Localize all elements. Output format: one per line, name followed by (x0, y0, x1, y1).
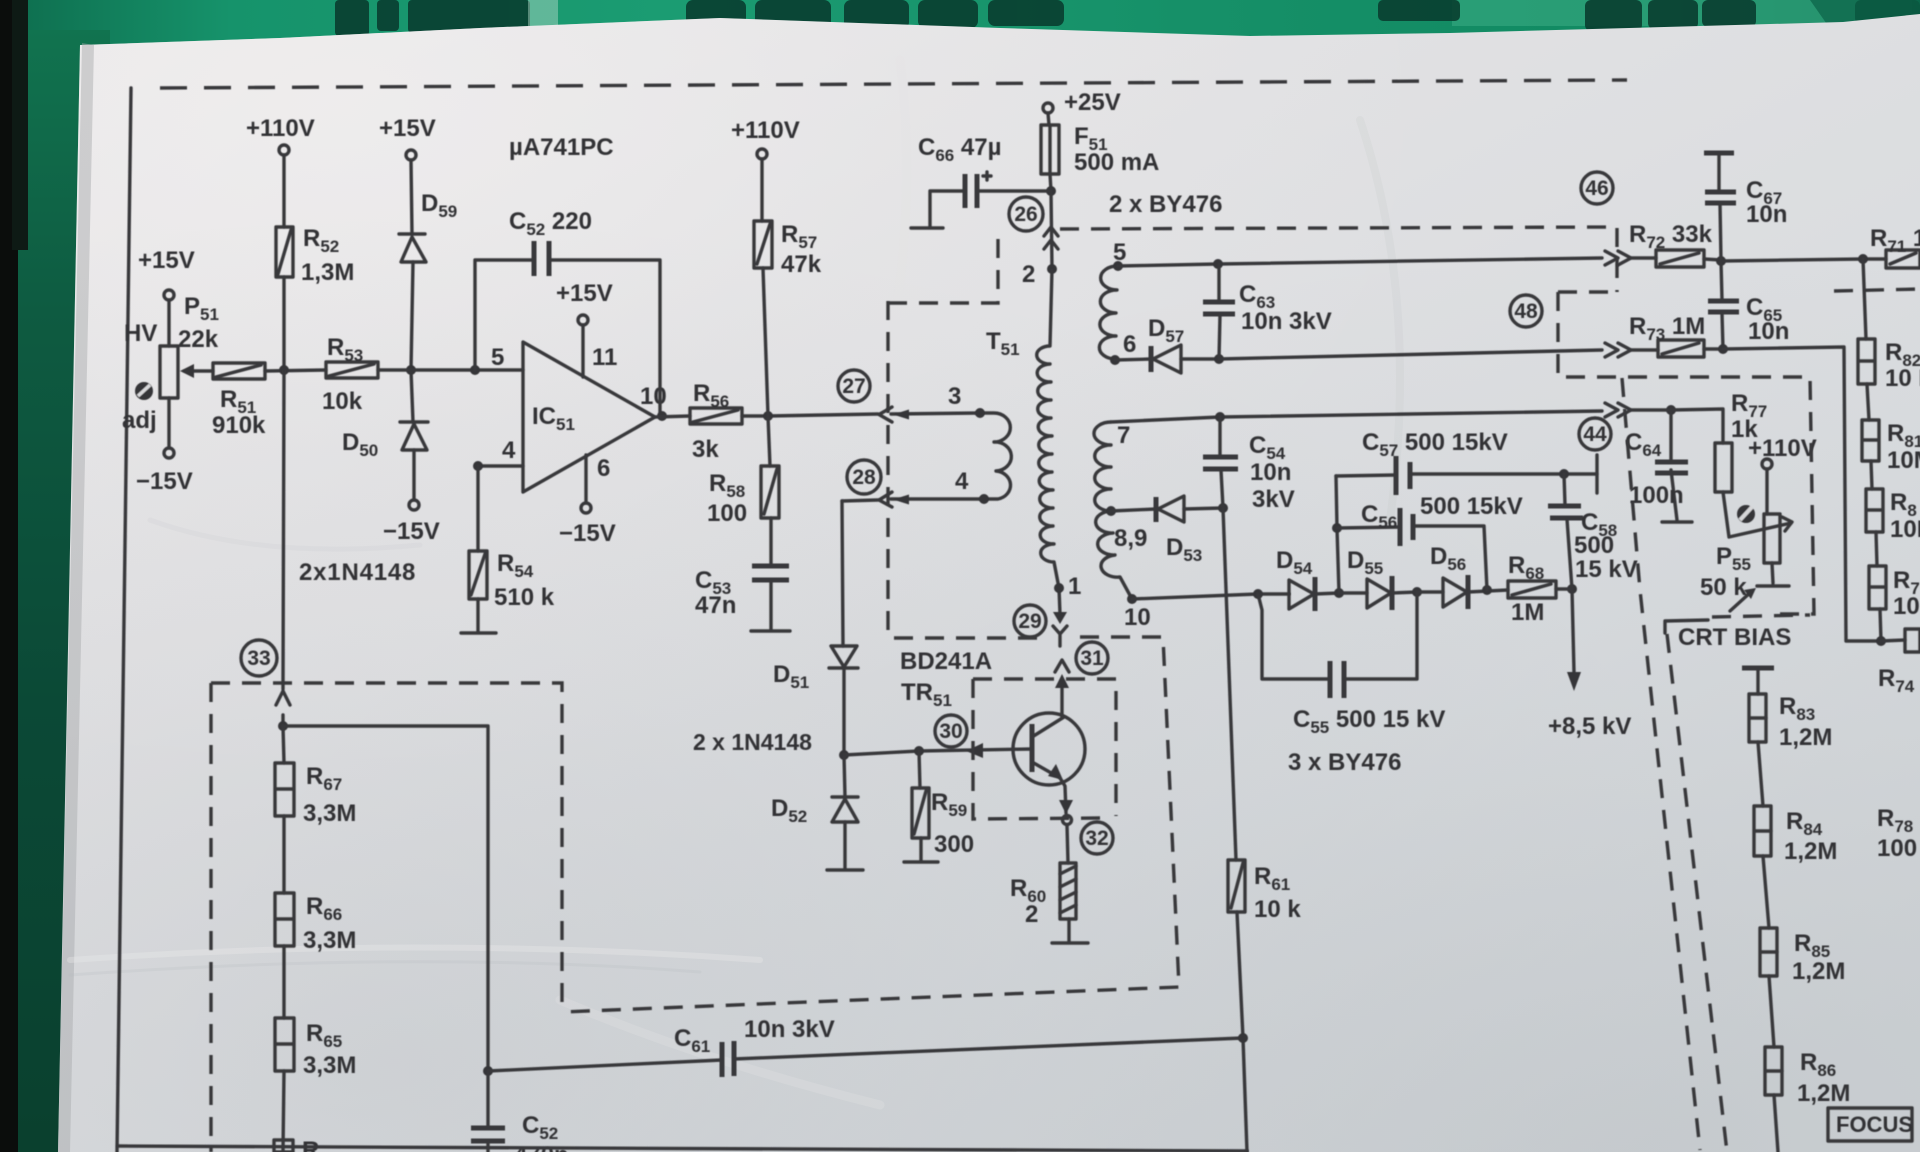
arrow into node 28 (879, 492, 892, 507)
wire pin 4 (478, 464, 523, 467)
wire node to R58 (768, 416, 770, 466)
svg-text:28: 28 (852, 466, 876, 489)
P51 adjust dot (135, 382, 153, 400)
arrow up collector (1055, 674, 1069, 688)
wire F51 to node 26 (1050, 174, 1051, 191)
svg-text:R: R (302, 1137, 319, 1152)
potentiometer P55 (1757, 469, 1789, 586)
feedback wire with C52 (475, 260, 660, 416)
svg-text:48: 48 (1514, 300, 1538, 323)
resistor R59 (904, 751, 938, 862)
node 1 primary (1054, 583, 1064, 593)
diode D54 (1289, 577, 1339, 611)
wire R73 to R74 node (1723, 347, 1881, 641)
svg-text:HV: HV (124, 320, 157, 347)
node coil 3 (975, 408, 985, 418)
svg-text:10n: 10n (1250, 459, 1291, 486)
top dashed frame line (160, 80, 1627, 88)
T51 secondary 3-4 (980, 413, 1011, 499)
C53 ground stub (751, 580, 790, 631)
circle ref 32 (1081, 822, 1113, 854)
resistor R67 (275, 726, 294, 816)
svg-text:3: 3 (948, 383, 961, 410)
svg-text:510 k: 510 k (494, 584, 555, 611)
resistor R73 (1631, 340, 1723, 357)
svg-text:R72 33k: R72 33k (1629, 221, 1713, 252)
node C56 left (1332, 523, 1342, 533)
node D55/D56 (1412, 587, 1422, 597)
wire R58 to C53 (769, 518, 772, 566)
svg-text:2x1N4148: 2x1N4148 (299, 559, 416, 586)
dashed line CRT bias long (1667, 634, 1727, 1152)
resistor R56 (690, 408, 742, 424)
resistor R71 (1886, 250, 1920, 268)
wire R56 to node 27 then coil 3 (742, 413, 980, 416)
P55 adjust dot (1737, 505, 1755, 523)
svg-text:46: 46 (1585, 177, 1608, 200)
node C54 top (1215, 412, 1225, 422)
capacitor C55 (1330, 661, 1344, 698)
wire node 26 down to T51 primary (1051, 191, 1052, 269)
wire +110V to R57 (760, 159, 763, 221)
arrow down node 29 (1053, 612, 1067, 624)
Y junction mark (1053, 626, 1067, 646)
node R68 out (1567, 584, 1577, 594)
resistor R86 (1765, 1047, 1782, 1095)
-15V terminal (pin 6) (581, 503, 591, 513)
diode D51 (829, 646, 858, 668)
svg-text:500 mA: 500 mA (1074, 149, 1159, 176)
wire R65 down (283, 1071, 284, 1152)
R60 ground stub (1052, 919, 1088, 943)
diode D55 (1339, 576, 1417, 610)
svg-text:47n: 47n (695, 592, 736, 619)
capacitor C54 (1203, 417, 1238, 508)
resistor R64 partial (274, 1140, 293, 1152)
capacitor C56 (1400, 508, 1413, 546)
CRT BIAS bracket (1665, 620, 1708, 633)
svg-text:adj: adj (122, 407, 157, 434)
node D56/R68 (1482, 585, 1492, 595)
svg-text:+110V: +110V (1748, 435, 1817, 462)
svg-text:10: 10 (1124, 604, 1151, 631)
resistor R82 (1858, 339, 1875, 384)
circle ref 26 (1009, 197, 1043, 231)
svg-text:µA741PC: µA741PC (509, 134, 614, 161)
capacitor C61 (722, 1041, 734, 1077)
stub to ref 44 (1595, 455, 1598, 493)
capacitor C57 (1396, 456, 1410, 495)
capacitor C55 loop (1258, 592, 1417, 679)
svg-text:10M: 10M (1887, 447, 1920, 474)
node D51/D52/R59 (839, 750, 849, 760)
BACKGROUND green board (0, 0, 1920, 70)
T51 secondary 7-10 (1094, 422, 1132, 599)
wire R52 node down to 33 node (283, 370, 284, 726)
svg-text:47k: 47k (781, 251, 822, 278)
svg-text:6: 6 (1123, 331, 1136, 358)
+110V terminal (279, 145, 289, 155)
resistor R51 (213, 363, 265, 379)
node bottom wire (1238, 1033, 1248, 1043)
svg-text:11: 11 (592, 344, 617, 371)
circle ref 48 (1510, 295, 1542, 327)
resistor R54 (469, 551, 487, 599)
fuse F51 (1041, 125, 1059, 174)
diode D57 (1115, 345, 1219, 373)
resistor R85 (1760, 928, 1777, 976)
node 44 (1666, 405, 1676, 415)
diode D56 (1417, 575, 1508, 609)
dashed box TR51 outer (562, 637, 1179, 1012)
svg-text:+15V: +15V (138, 247, 195, 274)
svg-text:+110V: +110V (246, 115, 315, 142)
TR51 emitter arrow (1048, 764, 1063, 780)
capacitor C56 branch (1337, 526, 1487, 590)
svg-text:31: 31 (1080, 647, 1104, 670)
arrows into net 44 (1605, 403, 1631, 417)
wire 44 to R77 (1631, 409, 1723, 443)
resistor R81 (1862, 420, 1879, 461)
resistor R80 (1866, 489, 1883, 532)
node 10 (1127, 594, 1137, 604)
op-amp IC51 (523, 342, 655, 492)
arrow on base wire (966, 743, 983, 758)
dashed box 48 (1558, 292, 1814, 614)
svg-text:100: 100 (1877, 835, 1917, 862)
node R57/R58 (763, 411, 773, 421)
wire R72 node to R71 (1721, 259, 1886, 261)
circle ref 28 (847, 460, 881, 494)
svg-text:10M: 10M (1890, 516, 1920, 543)
node pin4/R54 (473, 461, 483, 471)
svg-text:C66 47µ: C66 47µ (918, 134, 1001, 165)
wire +15V to D59 (411, 160, 412, 234)
node C63 top (1213, 259, 1223, 269)
arrow up at 33 (276, 691, 290, 705)
dashed bus 26 to 46 (1060, 227, 1617, 292)
wire R53 to op-amp pin5 (378, 368, 523, 371)
wire net 10 to D54 (1132, 594, 1289, 599)
wire coil7 to net 44 (1111, 411, 1602, 422)
node 8,9 tap (1106, 506, 1116, 516)
node coil 5 (1113, 261, 1123, 271)
svg-text:−15V: −15V (559, 520, 616, 547)
wire C52 drop (486, 1071, 489, 1126)
wire pin 11 (581, 325, 584, 377)
P55 wiper arrow (1782, 517, 1792, 531)
P51 wiper arrow (184, 369, 213, 372)
resistor R52 (276, 227, 293, 277)
svg-text:1,3M: 1,3M (301, 259, 354, 286)
svg-text:10n: 10n (1746, 201, 1787, 228)
potentiometer P51 (160, 300, 178, 448)
dark print on green top band (1452, 0, 1912, 26)
svg-text:+8,5 kV: +8,5 kV (1548, 713, 1631, 740)
svg-text:4: 4 (955, 468, 969, 495)
svg-text:910k: 910k (212, 412, 266, 439)
collector wire with node 29/31 arrows (1059, 588, 1062, 718)
node 2 primary (1047, 264, 1057, 274)
wire C57 left down (1336, 476, 1339, 593)
wire node to C66 (977, 189, 1051, 192)
arrows into R72 (1605, 251, 1631, 265)
edge component stub (1881, 629, 1920, 652)
dashed 44 box bottom (1712, 615, 1810, 617)
svg-text:6: 6 (597, 455, 610, 482)
wire R68 to +8,5kV arrow (1556, 589, 1574, 672)
diode D52 (827, 755, 863, 870)
diode D53 (1156, 496, 1223, 522)
node 26 (1046, 186, 1056, 196)
wire coil5 to C63 and R72 (1118, 258, 1602, 266)
P51 top terminal (164, 290, 174, 300)
diode D59 (399, 234, 426, 262)
resistor R61 (1228, 860, 1245, 912)
svg-text:32: 32 (1085, 827, 1108, 850)
transistor TR51 (1013, 713, 1085, 785)
capacitor C52 (bottom) (471, 1128, 505, 1152)
dashed line net 27/28 vertical (886, 301, 889, 638)
circle ref 44 (1579, 418, 1611, 450)
svg-text:3 x BY476: 3 x BY476 (1288, 749, 1401, 776)
svg-text:+110V: +110V (731, 117, 800, 144)
resistor R84 (1754, 806, 1771, 856)
svg-text:22k: 22k (178, 326, 219, 353)
node C67/C65 top (1716, 256, 1726, 266)
svg-text:4: 4 (502, 437, 516, 464)
wire 33 node to right branch (283, 726, 488, 1071)
capacitor C67 (1704, 153, 1736, 261)
svg-text:15 kV: 15 kV (1575, 556, 1638, 583)
svg-text:27: 27 (842, 375, 865, 398)
svg-text:5: 5 (491, 344, 504, 371)
svg-text:7: 7 (1117, 422, 1130, 449)
wire R83-R84 (1758, 742, 1763, 806)
wire R57 to node (763, 268, 768, 416)
svg-text:10: 10 (1893, 593, 1920, 620)
wire +110V to R52 (282, 155, 285, 227)
wire R77 to P55 wiper (1723, 492, 1791, 537)
circle ref 29 (1014, 605, 1046, 637)
capacitor C57 branch (1336, 474, 1597, 476)
svg-text:8,9: 8,9 (1114, 525, 1147, 552)
svg-text:+15V: +15V (379, 115, 436, 142)
svg-text:3,3M: 3,3M (303, 800, 356, 827)
svg-text:3,3M: 3,3M (303, 1052, 356, 1079)
circle ref 30 (935, 715, 967, 747)
wire R51 to node (265, 370, 326, 371)
svg-text:FOCUS: FOCUS (1836, 1112, 1913, 1137)
arrow into node 27 (879, 407, 892, 422)
svg-text:1M: 1M (1511, 599, 1544, 626)
node C57/C58 (1559, 469, 1569, 479)
svg-text:500: 500 (1574, 532, 1614, 559)
node C52 bottom (483, 1066, 493, 1076)
capacitor C65 (1708, 261, 1739, 349)
wire tap to D53 (1111, 509, 1156, 511)
resistor R79 (1869, 566, 1886, 609)
wire net 28 down to D51 (842, 501, 843, 646)
circle ref 46 (1581, 172, 1613, 204)
paper left edge shadow (58, 43, 94, 1152)
svg-text:10n: 10n (1748, 318, 1789, 345)
resistor R53 (326, 362, 378, 378)
+15V terminal (406, 150, 416, 160)
svg-text:3,3M: 3,3M (303, 927, 356, 954)
capacitor C58 (1548, 474, 1583, 589)
node R52 (279, 365, 289, 375)
node R74 (1876, 636, 1886, 646)
svg-text:10 k: 10 k (1254, 896, 1301, 923)
left border line (117, 88, 131, 1152)
svg-text:300: 300 (934, 831, 974, 858)
svg-text:2 x BY476: 2 x BY476 (1109, 191, 1222, 218)
wire pin10 to R56 (655, 416, 690, 417)
FOCUS box (1828, 1108, 1913, 1141)
svg-text:100n: 100n (1629, 482, 1684, 509)
svg-text:26: 26 (1014, 203, 1037, 226)
T51 secondary 5-6 (1099, 266, 1118, 359)
svg-text:1,2M: 1,2M (1779, 724, 1832, 751)
node D54/D55 (1334, 588, 1344, 598)
node R82 column top (1858, 254, 1868, 264)
node R53/D59 (406, 365, 416, 375)
wire R66-R65 (282, 946, 285, 1018)
svg-text:500 15kV: 500 15kV (1420, 493, 1523, 520)
circle ref 31 (1076, 642, 1108, 674)
wire net 28 to coil 4 (842, 499, 984, 501)
dashed corner to net 26 (888, 231, 998, 303)
resistor R68 (1508, 581, 1556, 598)
wire +25V to F51 (1048, 113, 1049, 125)
resistor R72 (1631, 250, 1721, 267)
P51 bottom terminal (164, 448, 174, 458)
svg-text:10k: 10k (322, 388, 363, 415)
resistor R77 (1715, 443, 1732, 492)
svg-text:33: 33 (247, 647, 270, 670)
emitter terminal (1063, 816, 1072, 825)
svg-text:44: 44 (1583, 423, 1607, 446)
wire node to R54 (476, 466, 479, 551)
svg-text:5: 5 (1113, 239, 1126, 266)
node R73 out (1718, 344, 1728, 354)
right column wire (1863, 259, 1881, 641)
node feedback tap (470, 365, 480, 375)
wire D59 to node (411, 262, 413, 370)
emitter wire (1060, 778, 1066, 813)
wire R67-R66 (282, 816, 285, 893)
dashed box 33 (211, 683, 562, 1152)
wire C54 node down through R61 (1223, 508, 1247, 1152)
arrows into R73 (1605, 343, 1631, 357)
svg-text:100: 100 (707, 500, 747, 527)
bottom frame wire (118, 1146, 1247, 1151)
base wire to TR51 (844, 749, 1032, 755)
resistor R57 (754, 221, 772, 268)
svg-text:+15V: +15V (556, 280, 613, 307)
arrow up node 31 (1055, 660, 1069, 672)
T51 primary winding (1037, 269, 1059, 588)
wire D51 to base node (842, 668, 845, 755)
wire R85-R86 (1769, 976, 1774, 1047)
emitter arrow down (1059, 800, 1073, 814)
capacitor C66 + (911, 172, 991, 228)
svg-text:3k: 3k (692, 436, 719, 463)
svg-text:CRT BIAS: CRT BIAS (1678, 624, 1791, 651)
wire emitter to R60 (1067, 825, 1068, 863)
svg-text:10n 3kV: 10n 3kV (1241, 308, 1332, 335)
svg-text:30: 30 (939, 720, 962, 743)
svg-text:−15V: −15V (136, 468, 193, 495)
node C63 bottom (1214, 354, 1224, 364)
circle ref 33 (241, 640, 277, 676)
svg-text:2: 2 (1022, 261, 1035, 288)
svg-text:2: 2 (1025, 901, 1038, 928)
svg-text:10 M: 10 M (1885, 365, 1920, 392)
capacitor C53 (752, 566, 789, 580)
svg-text:1,2M: 1,2M (1792, 958, 1845, 985)
svg-text:1,2M: 1,2M (1797, 1080, 1850, 1107)
wire R84-R85 (1763, 856, 1769, 928)
node D54 anode / C55 left (1253, 589, 1263, 599)
wire top bar to R83 (1756, 668, 1759, 694)
capacitor C64 (1655, 410, 1692, 522)
wire pin 6 (584, 455, 587, 503)
node R59 (914, 746, 924, 756)
resistor R65 (275, 1018, 294, 1071)
arrow +8,5 kV (1567, 672, 1581, 691)
svg-text:3kV: 3kV (1252, 486, 1295, 513)
svg-text:10: 10 (640, 383, 667, 410)
resistor R83 (1749, 694, 1766, 742)
svg-text:29: 29 (1018, 610, 1041, 633)
circle ref 27 (838, 370, 870, 402)
P55 lower arrow (1730, 591, 1752, 611)
node 33 (278, 721, 288, 731)
node coil 6 (1110, 355, 1120, 365)
svg-text:50 k: 50 k (1700, 574, 1747, 601)
svg-text:+25V: +25V (1064, 89, 1121, 116)
+25V terminal (1043, 103, 1053, 113)
resistor R66 (275, 893, 294, 946)
wire R52 to input node (282, 277, 285, 370)
svg-text:BD241A: BD241A (900, 648, 992, 675)
CRT bias column top bar (1742, 666, 1774, 671)
capacitor C63 (1203, 264, 1235, 359)
R54 ground stub (461, 599, 496, 633)
resistor R60 (hatched) (1060, 863, 1076, 919)
bottom wire to C61 (488, 1038, 1243, 1071)
wire D57 to R73 (1219, 350, 1602, 359)
diode D50 (400, 370, 428, 500)
capacitor C52 (534, 241, 549, 276)
resistor R58 (761, 466, 779, 518)
arrows up net 26 (1044, 227, 1058, 249)
svg-text:−15V: −15V (383, 518, 440, 545)
svg-text:C52 220: C52 220 (509, 208, 592, 239)
svg-text:1: 1 (1068, 573, 1081, 600)
node coil 4 (979, 494, 989, 504)
dashed bus 48 right (1558, 289, 1920, 292)
faint creases (70, 60, 1400, 1105)
svg-text:1,2M: 1,2M (1784, 838, 1837, 865)
wire R86 down (1774, 1095, 1778, 1152)
svg-text:R73 1M: R73 1M (1629, 313, 1705, 344)
output node pin10 (657, 411, 667, 421)
svg-text:2 x 1N4148: 2 x 1N4148 (693, 729, 812, 755)
-15V terminal (D50) (409, 500, 419, 510)
